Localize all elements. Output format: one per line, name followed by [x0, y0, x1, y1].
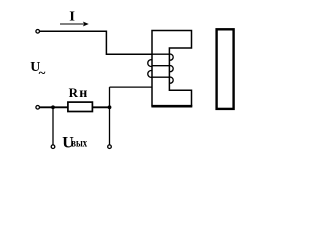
- core bottom edge (thicker): [151, 105, 192, 108]
- magnetic core (C-shape): [152, 31, 192, 106]
- wire coil bottom lead: [110, 86, 153, 88]
- wire top horizontal and bend down to coil: [40, 31, 169, 54]
- svg-text:I: I: [69, 9, 75, 24]
- coil right half-turns: [169, 54, 173, 83]
- armature plate: [217, 29, 234, 109]
- wire lower left: [40, 106, 68, 108]
- svg-text:н: н: [79, 86, 87, 101]
- svg-text:~: ~: [39, 65, 46, 80]
- wire right vertical from coil bottom to output terminal right: [109, 87, 111, 145]
- junction node left: [51, 105, 55, 109]
- svg-text:вых: вых: [71, 136, 87, 150]
- junction node right: [108, 105, 112, 109]
- coil left half-turns: [148, 60, 152, 78]
- output terminal right: [108, 145, 112, 149]
- coil winding cross wires: [152, 54, 169, 77]
- wire resistor to right junction: [92, 106, 109, 108]
- wire down to output terminal left: [52, 107, 54, 145]
- svg-text:R: R: [69, 85, 79, 100]
- output terminal left: [51, 145, 55, 149]
- terminal input top: [36, 30, 40, 34]
- current arrow: [60, 23, 86, 25]
- resistor R_n: [68, 102, 93, 111]
- terminal input bottom: [36, 106, 40, 110]
